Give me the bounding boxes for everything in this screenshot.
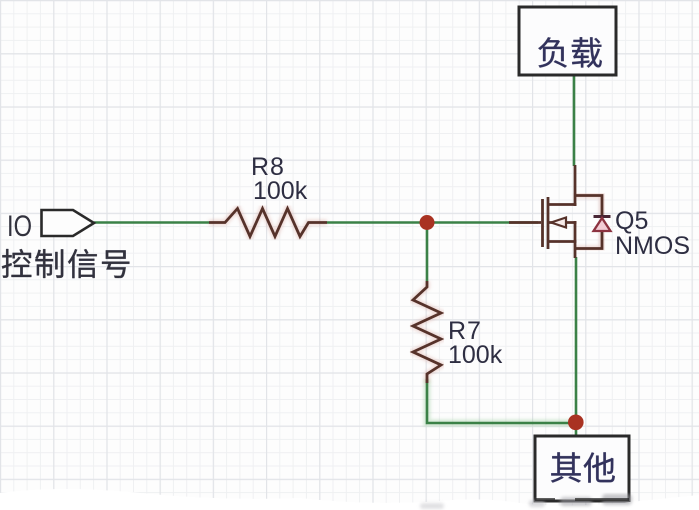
svg-text:NMOS: NMOS — [615, 232, 690, 260]
svg-text:100k: 100k — [253, 177, 308, 205]
svg-text:100k: 100k — [448, 341, 503, 369]
svg-text:IO: IO — [7, 210, 32, 243]
svg-text:Q5: Q5 — [615, 207, 648, 235]
